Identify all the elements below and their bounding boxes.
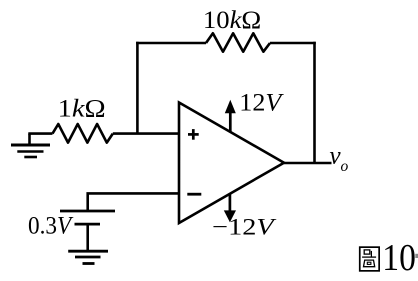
svg-text:1kΩ: 1kΩ	[58, 96, 106, 123]
resistor R1 zigzag	[53, 124, 113, 143]
wire battery to inverting input	[88, 193, 179, 210]
svg-text:0.3V: 0.3V	[28, 213, 74, 240]
svg-text:10: 10	[382, 237, 416, 279]
battery V1 0.3V	[60, 211, 115, 251]
wire R1 to op-amp noninverting input	[113, 132, 179, 135]
figure caption 圖 10	[360, 237, 418, 279]
svg-text:−12V: −12V	[212, 215, 277, 241]
op-amp plus input marking	[188, 129, 199, 140]
node vo label	[330, 143, 349, 176]
supply -12V arrow	[224, 194, 236, 223]
wire feedback top left segment	[136, 42, 206, 45]
op-amp minus input marking	[187, 193, 201, 196]
resistor R2 zigzag	[206, 33, 270, 51]
ground GND2 (battery)	[68, 251, 108, 263]
wire ground to R1	[28, 132, 52, 135]
ground GND1 (left)	[11, 134, 50, 157]
op-amp U1 triangle	[179, 103, 284, 224]
svg-text:10kΩ: 10kΩ	[203, 7, 261, 34]
wire feedback top right segment	[270, 42, 316, 45]
svg-text:o: o	[341, 158, 349, 175]
wire feedback left vertical	[136, 42, 139, 134]
supply +12V arrow	[225, 100, 236, 132]
svg-text:12V: 12V	[239, 90, 284, 117]
wire op-amp output	[284, 162, 332, 165]
wire feedback right vertical	[313, 42, 316, 163]
